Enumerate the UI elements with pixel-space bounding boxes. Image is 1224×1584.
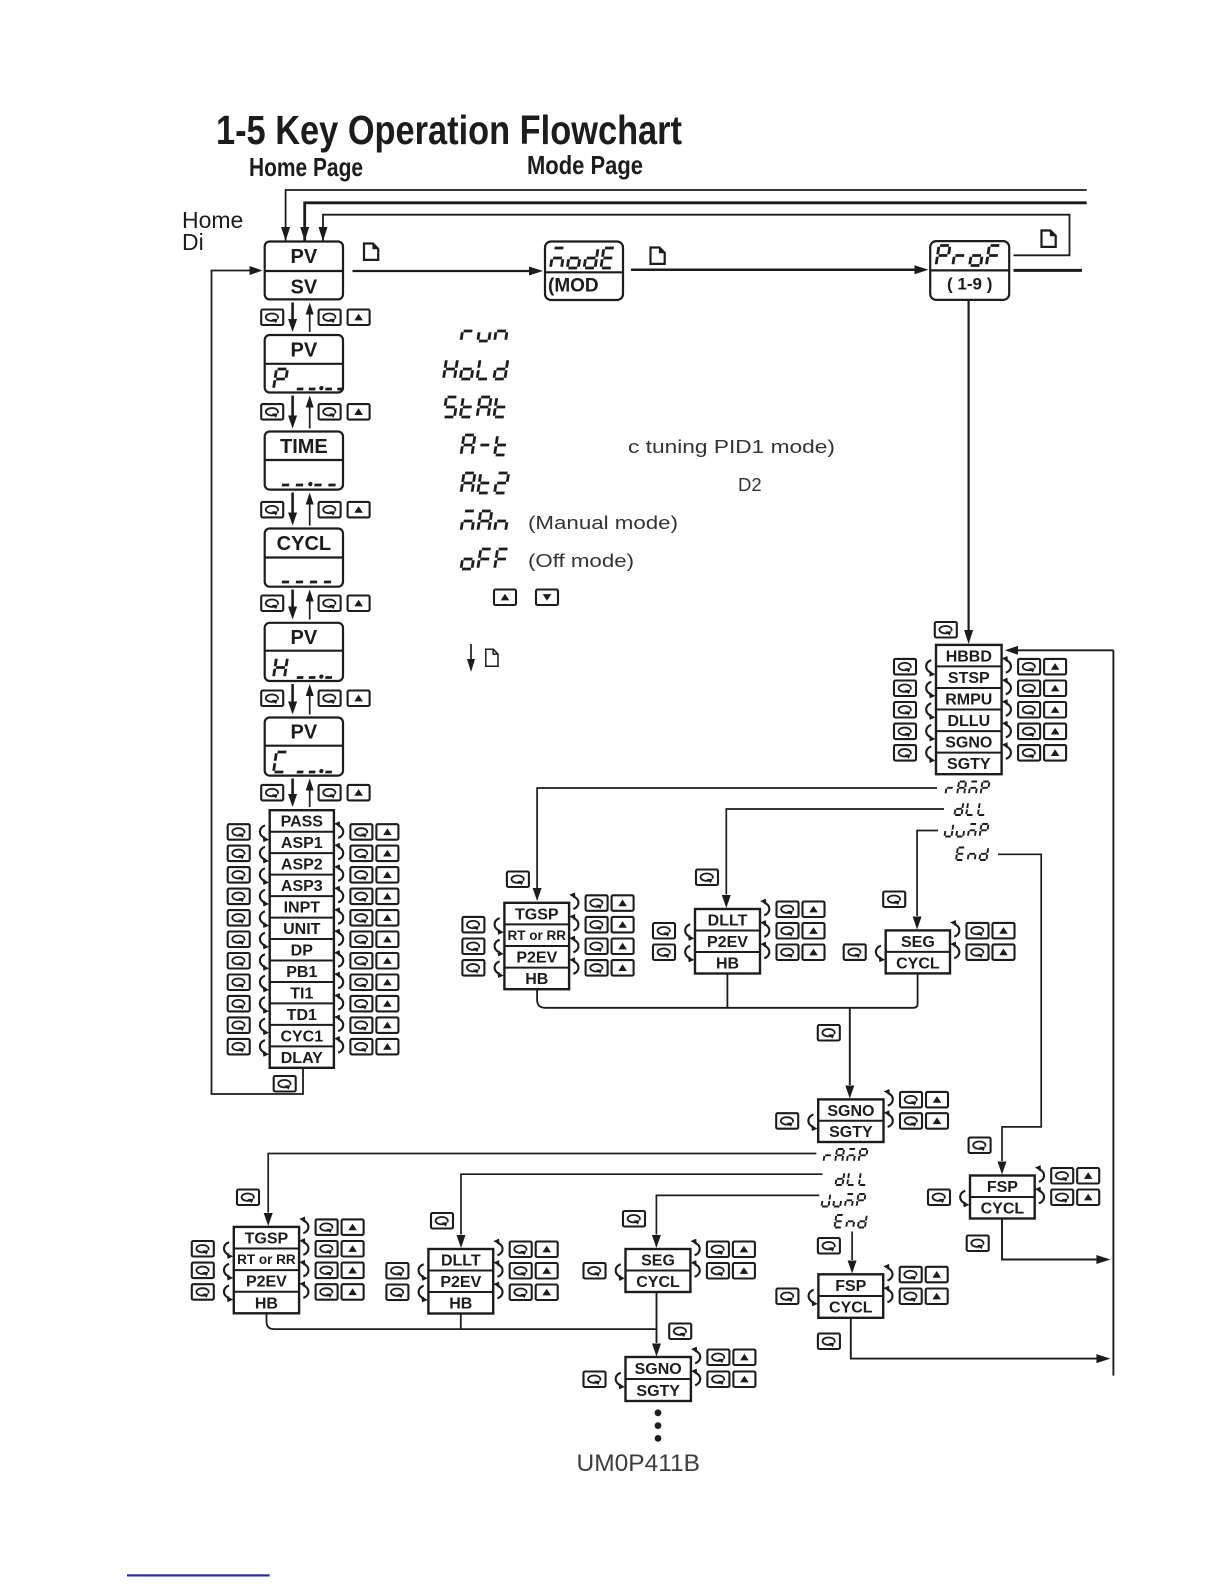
key SET left PASS-stack row10 xyxy=(228,1017,250,1033)
curved arrow right SGNO1 row1 xyxy=(884,1089,893,1106)
svg-text:ASP1: ASP1 xyxy=(281,835,323,852)
7seg MODE xyxy=(551,248,614,268)
wire group1 collector xyxy=(537,973,918,1007)
7seg rAmP 2 xyxy=(824,1149,868,1161)
key SET left PASS-stack row1 xyxy=(228,824,250,840)
curved arrow left PASS-stack row1 xyxy=(260,826,269,843)
stack FSP lower xyxy=(818,1274,883,1318)
key UP right TGSP1 row4 xyxy=(612,960,634,976)
svg-text:DLLT: DLLT xyxy=(441,1253,481,1270)
nav arrow down row4 xyxy=(291,590,294,608)
key SET right PASS-stack row2 xyxy=(350,846,372,862)
svg-text:TD1: TD1 xyxy=(287,1007,317,1024)
7seg H xyxy=(274,659,288,677)
curved arrow left DLLT2 row2 xyxy=(419,1286,428,1303)
curved arrow left TGSP1 row2 xyxy=(495,940,504,957)
key UP right TGSP1 row1 xyxy=(612,895,634,911)
wire FSP lower exit xyxy=(851,1318,1097,1359)
7seg A-t xyxy=(461,435,507,455)
svg-text:HB: HB xyxy=(525,971,548,988)
key SET below PASS stack xyxy=(274,1076,296,1092)
key UP right TGSP2 row3 xyxy=(342,1263,364,1279)
stack SGNO2 xyxy=(626,1357,691,1401)
7seg H dashes xyxy=(297,675,333,679)
7seg dLL 2 xyxy=(836,1173,867,1185)
nav arrow down row5 xyxy=(291,684,294,703)
curved arrow right HBBD-stack row1 xyxy=(1002,656,1011,673)
7seg StAt xyxy=(444,397,507,417)
key UP right PASS-stack row4 xyxy=(376,889,398,905)
svg-text:CYCL: CYCL xyxy=(829,1300,873,1317)
key SET left DLLT2 row2 xyxy=(386,1285,408,1301)
svg-text:HB: HB xyxy=(449,1296,472,1313)
key SET right TGSP1 row1 xyxy=(586,895,608,911)
key SET left DLLT1 row2 xyxy=(653,945,675,961)
key SET row2 left xyxy=(261,404,283,420)
7seg C xyxy=(274,752,287,772)
curved arrow left PASS-stack row9 xyxy=(260,997,269,1014)
curved arrow right DLLT2 row1 xyxy=(493,1239,502,1256)
svg-text:CYC1: CYC1 xyxy=(280,1028,323,1045)
stack DLLT2 xyxy=(428,1249,493,1314)
nav arrow down row1 xyxy=(291,303,294,321)
wire right vertical return xyxy=(1112,650,1114,1375)
curved arrow left PASS-stack row10 xyxy=(260,1019,269,1036)
key SET right PASS-stack row5 xyxy=(350,910,372,926)
key UP right HBBD-stack row4 xyxy=(1044,724,1066,740)
wire dLL2 to DLLT2 xyxy=(461,1174,823,1234)
7seg TIME dashes xyxy=(282,482,336,486)
curved arrow left TGSP2 row2 xyxy=(224,1264,233,1281)
box MODE xyxy=(545,242,623,301)
wire FSP upper exit xyxy=(1002,1219,1097,1260)
7seg oFF xyxy=(461,549,507,569)
key SET left PASS-stack row8 xyxy=(228,975,250,991)
box PV/P xyxy=(265,335,343,393)
svg-text:SGTY: SGTY xyxy=(947,756,991,773)
key SET above SGNO1 xyxy=(818,1025,840,1041)
curved arrow left PASS-stack row6 xyxy=(260,933,269,950)
box ProF xyxy=(930,241,1009,300)
curved arrow left HBBD-stack row2 xyxy=(926,682,935,699)
curved arrow left TGSP2 row3 xyxy=(224,1286,233,1303)
wire JumP2 to SEG2 xyxy=(656,1195,819,1234)
svg-text:DLAY: DLAY xyxy=(281,1050,323,1067)
7seg End 1 xyxy=(956,848,988,861)
svg-text:HB: HB xyxy=(716,956,739,973)
svg-text:(MOD: (MOD xyxy=(548,276,599,297)
curved arrow right TGSP2 row4 xyxy=(299,1281,308,1298)
key SET left TGSP1 row1 xyxy=(462,917,484,933)
curved arrow right SEG2 row2 xyxy=(691,1260,700,1277)
key UP mode select xyxy=(494,590,516,606)
svg-text:SGTY: SGTY xyxy=(636,1383,680,1400)
nav arrow up row4 xyxy=(309,602,311,620)
svg-text:DLLU: DLLU xyxy=(947,713,990,730)
svg-text:CYCL: CYCL xyxy=(636,1274,680,1291)
nav arrow up row3 xyxy=(309,505,311,526)
key UP right SGNO2 row1 xyxy=(733,1350,755,1366)
key SET row6 left xyxy=(261,785,283,801)
key SET row6 right xyxy=(319,785,341,801)
svg-text:FSP: FSP xyxy=(987,1179,1018,1196)
key SET row3 left xyxy=(261,502,283,518)
svg-text:TGSP: TGSP xyxy=(515,906,559,923)
key UP row5 xyxy=(348,691,370,707)
box CYCL xyxy=(265,529,343,587)
nav arrow up row2 xyxy=(309,408,311,429)
wire MODE to ProF xyxy=(631,269,917,272)
svg-text:Di: Di xyxy=(182,229,204,255)
key UP right PASS-stack row11 xyxy=(376,1039,398,1055)
key SET left PASS-stack row3 xyxy=(228,867,250,883)
svg-text:INPT: INPT xyxy=(284,900,321,917)
box PV/H xyxy=(265,623,343,681)
key UP row3 xyxy=(348,502,370,518)
key UP right HBBD-stack row1 xyxy=(1044,659,1066,675)
svg-text:P2EV: P2EV xyxy=(246,1274,287,1291)
key SET right PASS-stack row4 xyxy=(350,889,372,905)
svg-text:PV: PV xyxy=(291,246,318,268)
key UP right FSP-upper row2 xyxy=(1077,1190,1099,1206)
stack TGSP1 xyxy=(504,903,569,989)
curved arrow left PASS-stack row4 xyxy=(260,890,269,907)
wire DLLT1 down xyxy=(726,974,728,1008)
dots below SGNO2 xyxy=(655,1409,662,1416)
key SET row1 right xyxy=(319,310,341,326)
key UP right PASS-stack row10 xyxy=(376,1017,398,1033)
key UP row4 xyxy=(348,596,370,612)
wire rAmP to TGSP1 xyxy=(537,788,937,888)
key SET right DLLT2 row2 xyxy=(510,1263,532,1279)
curved arrow right SGNO2 row1 xyxy=(691,1347,700,1364)
wire home return loop xyxy=(212,271,304,1095)
key SET right SGNO2 row1 xyxy=(707,1350,729,1366)
curved arrow left PASS-stack row8 xyxy=(260,976,269,993)
svg-text:DP: DP xyxy=(291,943,314,960)
key SET left PASS-stack row9 xyxy=(228,996,250,1012)
key UP right DLLT2 row2 xyxy=(536,1263,558,1279)
key SET row4 right xyxy=(319,596,341,612)
svg-text:PV: PV xyxy=(291,627,318,649)
key SET left TGSP2 row2 xyxy=(192,1263,214,1279)
arrow down to next page xyxy=(470,644,472,660)
box PV/C xyxy=(265,718,343,776)
curved arrow left TGSP1 row3 xyxy=(495,961,504,978)
curved arrow right TGSP2 row3 xyxy=(299,1260,308,1277)
key UP right SEG2 row2 xyxy=(733,1263,755,1279)
key SET row1 left xyxy=(261,310,283,326)
7seg C dashes xyxy=(297,769,333,773)
key SET left FSP-lower row1 xyxy=(776,1289,798,1305)
curved arrow left TGSP2 row1 xyxy=(224,1242,233,1259)
wire top line A xyxy=(286,190,1087,241)
key SET left SEG1 row1 xyxy=(844,944,866,960)
curved arrow left PASS-stack row2 xyxy=(260,847,269,864)
key SET right DLLT2 row3 xyxy=(510,1285,532,1301)
svg-text:Home Page: Home Page xyxy=(249,152,363,182)
key SET above TGSP1 xyxy=(507,872,529,888)
key UP right DLLT2 row1 xyxy=(536,1242,558,1258)
svg-text:D2: D2 xyxy=(738,474,762,495)
nav arrow down row2 xyxy=(291,396,294,417)
footer blue rule xyxy=(127,1574,270,1576)
key SET left SEG2 row1 xyxy=(584,1263,606,1279)
key SET right FSP-lower row2 xyxy=(900,1289,922,1305)
key SET right DLLT1 row2 xyxy=(777,923,799,939)
page icon near MODE xyxy=(651,248,665,264)
curved arrow left SEG1 row1 xyxy=(876,946,885,963)
curved arrow right PASS-stack row10 xyxy=(334,1015,343,1032)
stack SEG2 xyxy=(626,1249,691,1292)
page icon near PV/SV xyxy=(364,244,378,260)
key SET right PASS-stack row11 xyxy=(350,1039,372,1055)
7seg JumP 2 xyxy=(822,1194,866,1207)
curved arrow right TGSP2 row2 xyxy=(299,1238,308,1255)
key SET right TGSP1 row3 xyxy=(586,939,608,955)
svg-text:PB1: PB1 xyxy=(286,964,317,981)
key SET left DLLT2 row1 xyxy=(386,1263,408,1279)
curved arrow right SGNO2 row2 xyxy=(691,1369,700,1386)
key SET right PASS-stack row8 xyxy=(350,975,372,991)
key SET right HBBD-stack row5 xyxy=(1018,745,1040,761)
svg-text:1-5 Key Operation Flowchart: 1-5 Key Operation Flowchart xyxy=(216,107,682,153)
curved arrow right DLLT1 row3 xyxy=(760,942,769,959)
svg-text:UNIT: UNIT xyxy=(283,921,321,938)
stack FSP upper xyxy=(970,1176,1035,1219)
key SET left DLLT1 row1 xyxy=(653,923,675,939)
curved arrow right HBBD-stack row3 xyxy=(1002,699,1011,716)
key UP right HBBD-stack row2 xyxy=(1044,681,1066,697)
key SET left HBBD-stack row1 xyxy=(894,659,916,675)
curved arrow right PASS-stack row8 xyxy=(334,972,343,989)
svg-text:UM0P411B: UM0P411B xyxy=(577,1450,700,1477)
key SET right TGSP1 row2 xyxy=(586,917,608,933)
curved arrow right PASS-stack row6 xyxy=(334,929,343,946)
nav arrow up row6 xyxy=(309,791,311,808)
wire top line B xyxy=(305,203,1087,241)
wire ProF divider right xyxy=(1014,269,1083,272)
curved arrow left PASS-stack row7 xyxy=(260,954,269,971)
curved arrow right SEG1 row1 xyxy=(950,920,959,937)
stack PASS..DLAY xyxy=(270,810,334,1068)
curved arrow right PASS-stack row9 xyxy=(334,993,343,1010)
key SET left PASS-stack row4 xyxy=(228,889,250,905)
wire PV/SV to MODE xyxy=(353,270,533,272)
curved arrow left PASS-stack row5 xyxy=(260,911,269,928)
svg-text:HB: HB xyxy=(255,1295,278,1312)
stack DLLT1 xyxy=(695,909,760,974)
7seg MAn xyxy=(461,511,508,530)
curved arrow right DLLT1 row2 xyxy=(760,920,769,937)
key SET above HBBD xyxy=(935,622,957,638)
key UP right TGSP2 row2 xyxy=(342,1241,364,1257)
key UP right SEG2 row1 xyxy=(733,1242,755,1258)
key SET right TGSP1 row4 xyxy=(586,960,608,976)
wire JumP to SEG1 xyxy=(917,831,938,917)
svg-text:STSP: STSP xyxy=(948,670,990,687)
stack SEG1 xyxy=(886,930,950,973)
wire group2 collector xyxy=(267,1313,657,1329)
7seg dLL 1 xyxy=(955,803,986,815)
svg-text:CYCL: CYCL xyxy=(981,1201,1025,1218)
curved arrow right HBBD-stack row2 xyxy=(1002,678,1011,695)
key UP right PASS-stack row3 xyxy=(376,867,398,883)
key UP right PASS-stack row9 xyxy=(376,996,398,1012)
svg-text:ASP3: ASP3 xyxy=(281,878,323,895)
curved arrow left FSP-upper row1 xyxy=(960,1191,969,1208)
wire down to SGNO1 xyxy=(849,1008,851,1085)
key SET right PASS-stack row3 xyxy=(350,867,372,883)
curved arrow left HBBD-stack row1 xyxy=(926,660,935,677)
key UP right HBBD-stack row3 xyxy=(1044,702,1066,718)
key SET left FSP-upper row1 xyxy=(928,1190,950,1206)
7seg rAmP 1 xyxy=(946,782,990,794)
key UP right DLLT2 row3 xyxy=(536,1285,558,1301)
key SET right TGSP2 row1 xyxy=(316,1219,338,1235)
key UP right TGSP2 row1 xyxy=(342,1219,364,1235)
key DOWN mode select xyxy=(536,590,558,606)
key SET right FSP-upper row2 xyxy=(1051,1190,1073,1206)
nav arrow down row6 xyxy=(291,779,294,796)
key UP right PASS-stack row7 xyxy=(376,953,398,969)
key SET right HBBD-stack row2 xyxy=(1018,681,1040,697)
page icon mid xyxy=(486,649,498,666)
key SET left TGSP1 row3 xyxy=(462,960,484,976)
svg-text:P2EV: P2EV xyxy=(707,934,748,951)
key SET right PASS-stack row9 xyxy=(350,996,372,1012)
7seg HoLd xyxy=(444,360,508,379)
key SET left HBBD-stack row4 xyxy=(894,724,916,740)
key SET left PASS-stack row6 xyxy=(228,932,250,948)
key SET left PASS-stack row2 xyxy=(228,846,250,862)
svg-text:( 1-9 ): ( 1-9 ) xyxy=(947,275,992,294)
key SET right TGSP2 row2 xyxy=(316,1241,338,1257)
svg-text:PV: PV xyxy=(291,722,318,744)
nav arrow down row3 xyxy=(291,493,294,514)
curved arrow right FSP-lower row1 xyxy=(883,1264,892,1281)
svg-text:(Off mode): (Off mode) xyxy=(528,550,634,571)
key SET right SGNO2 row2 xyxy=(707,1372,729,1388)
curved arrow right PASS-stack row7 xyxy=(334,950,343,967)
svg-text:PASS: PASS xyxy=(281,814,324,831)
curved arrow left TGSP1 row1 xyxy=(495,918,504,935)
svg-text:FSP: FSP xyxy=(835,1278,866,1295)
curved arrow right SEG1 row2 xyxy=(950,942,959,959)
curved arrow right PASS-stack row1 xyxy=(334,821,343,838)
curved arrow left DLLT1 row1 xyxy=(685,924,694,941)
key SET left SGNO1 row1 xyxy=(776,1113,798,1129)
key SET left HBBD-stack row2 xyxy=(894,681,916,697)
key UP right FSP-lower row1 xyxy=(926,1267,948,1283)
curved arrow right TGSP1 row2 xyxy=(569,914,578,931)
key SET above TGSP2 xyxy=(237,1190,259,1206)
svg-text:SV: SV xyxy=(291,277,318,299)
stack SGNO1 xyxy=(818,1099,883,1142)
curved arrow right FSP-lower row2 xyxy=(883,1286,892,1303)
svg-text:(Manual mode): (Manual mode) xyxy=(528,512,678,533)
curved arrow right PASS-stack row11 xyxy=(334,1036,343,1053)
key SET right DLLT1 row3 xyxy=(777,945,799,961)
stack TGSP2 xyxy=(234,1227,299,1313)
7seg At2 xyxy=(461,473,509,493)
svg-text:TIME: TIME xyxy=(280,436,328,458)
key UP right SGNO1 row2 xyxy=(926,1113,948,1129)
key SET right DLLT1 row1 xyxy=(777,902,799,918)
wire SEG2 down to SGNO2 xyxy=(656,1292,658,1343)
curved arrow right TGSP2 row1 xyxy=(299,1217,308,1234)
key SET right SGNO1 row1 xyxy=(900,1092,922,1108)
key UP row1 xyxy=(348,310,370,326)
wire top line C (page icon enclosure) xyxy=(323,215,1070,256)
key SET row2 right xyxy=(319,404,341,420)
key SET left TGSP1 row2 xyxy=(462,939,484,955)
key SET above FSP lower xyxy=(818,1238,840,1254)
key UP right PASS-stack row1 xyxy=(376,824,398,840)
nav arrow up row1 xyxy=(309,315,311,333)
key SET right of junction2 xyxy=(669,1324,691,1340)
key SET below FSP upper xyxy=(967,1236,989,1252)
wire rAmP2 to TGSP2 xyxy=(268,1154,816,1213)
key SET left SGNO2 row1 xyxy=(584,1372,606,1388)
key SET right FSP-upper row1 xyxy=(1051,1168,1073,1184)
key UP right FSP-upper row1 xyxy=(1077,1168,1099,1184)
7seg P xyxy=(274,369,288,388)
svg-text:SGNO: SGNO xyxy=(827,1103,874,1120)
curved arrow right TGSP1 row1 xyxy=(569,892,578,909)
curved arrow left DLLT1 row2 xyxy=(685,946,694,963)
key UP right TGSP1 row3 xyxy=(612,939,634,955)
wire DLLT2 down xyxy=(460,1314,462,1330)
key SET right SEG2 row1 xyxy=(707,1242,729,1258)
key UP right FSP-lower row2 xyxy=(926,1289,948,1305)
key SET left PASS-stack row11 xyxy=(228,1039,250,1055)
key UP row2 xyxy=(348,404,370,420)
curved arrow right HBBD-stack row4 xyxy=(1002,721,1011,738)
key SET right PASS-stack row10 xyxy=(350,1017,372,1033)
curved arrow left HBBD-stack row4 xyxy=(926,725,935,742)
key SET right SGNO1 row2 xyxy=(900,1113,922,1129)
stack HBBD..SGTY xyxy=(936,645,1002,774)
curved arrow left SEG2 row1 xyxy=(616,1264,625,1281)
key SET right PASS-stack row7 xyxy=(350,953,372,969)
7seg run xyxy=(461,331,507,341)
curved arrow left HBBD-stack row3 xyxy=(926,703,935,720)
wire return into HBBD xyxy=(1007,649,1113,651)
svg-text:P2EV: P2EV xyxy=(516,950,557,967)
key SET right SEG2 row2 xyxy=(707,1263,729,1279)
key SET left PASS-stack row5 xyxy=(228,910,250,926)
svg-text:TGSP: TGSP xyxy=(245,1231,289,1248)
key SET right SEG1 row2 xyxy=(967,944,989,960)
curved arrow right PASS-stack row3 xyxy=(334,864,343,881)
key SET above FSP upper xyxy=(969,1138,991,1154)
key SET row5 right xyxy=(319,691,341,707)
key SET right PASS-stack row1 xyxy=(350,824,372,840)
key SET right TGSP2 row3 xyxy=(316,1263,338,1279)
7seg JumP 1 xyxy=(945,824,989,837)
key SET right HBBD-stack row4 xyxy=(1018,724,1040,740)
curved arrow right DLLT2 row2 xyxy=(493,1260,502,1277)
box TIME xyxy=(265,432,343,490)
curved arrow left SGNO2 row1 xyxy=(616,1373,625,1390)
svg-text:DLLT: DLLT xyxy=(708,913,748,930)
key SET above DLLT2 xyxy=(431,1213,453,1229)
svg-text:RT or RR: RT or RR xyxy=(237,1252,296,1267)
svg-text:SEG: SEG xyxy=(641,1253,675,1270)
curved arrow right DLLT2 row3 xyxy=(493,1282,502,1299)
svg-text:ASP2: ASP2 xyxy=(281,857,323,874)
